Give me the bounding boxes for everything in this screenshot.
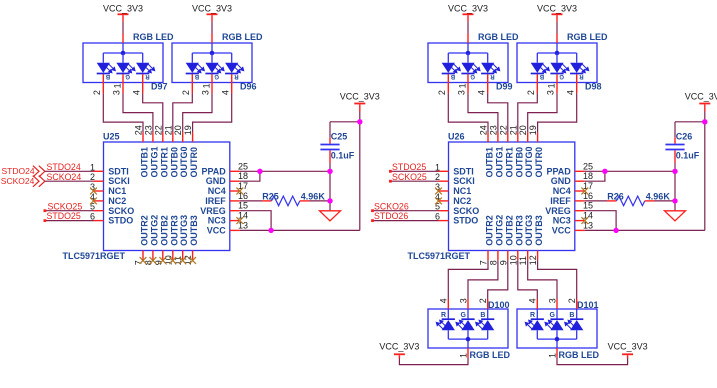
svg-text:OUTG3: OUTG3	[524, 215, 534, 246]
svg-text:D99: D99	[496, 81, 513, 91]
D101 LED R diode	[525, 319, 544, 339]
svg-text:25: 25	[238, 161, 248, 171]
svg-text:12: 12	[528, 255, 538, 265]
svg-text:GND: GND	[206, 176, 227, 186]
resistor R26 right lead	[645, 200, 655, 202]
D99 pin 4 stub	[487, 74, 489, 93]
svg-text:23: 23	[488, 125, 498, 135]
D96 LED B diode	[186, 53, 205, 74]
svg-text:2: 2	[478, 298, 488, 303]
D99 pin 3 stub	[467, 74, 469, 93]
wire U26 pin 7 to D100	[448, 260, 488, 299]
svg-text:3: 3	[112, 90, 122, 95]
svg-text:SDTI: SDTI	[108, 166, 129, 176]
wire VCC rail top U26	[704, 104, 706, 230]
IC U26 pin 23 stub	[497, 132, 499, 142]
svg-text:VCC_3V3: VCC_3V3	[192, 4, 232, 14]
svg-text:16: 16	[238, 191, 248, 201]
svg-text:OUTB0: OUTB0	[169, 147, 179, 178]
svg-text:B: B	[539, 73, 544, 79]
svg-text:22: 22	[153, 125, 163, 135]
svg-text:VCC_3V3: VCC_3V3	[537, 4, 577, 14]
IC U26 pin 20 stub	[527, 132, 529, 142]
no-connect X U26 pin 14 NC3	[581, 217, 588, 224]
svg-text:G: G	[125, 73, 130, 79]
IC U25 pin 7 stub	[142, 251, 144, 261]
IC U26 pin 1 stub	[439, 170, 449, 172]
IC U26 pin 4 stub	[439, 200, 449, 202]
D100 LED B diode	[476, 319, 495, 339]
svg-text:U26: U26	[448, 132, 465, 142]
junction C25 bottom to PPAD net	[327, 169, 332, 174]
svg-text:R: R	[441, 312, 446, 319]
capacitor C26 plates	[665, 145, 684, 150]
capacitor C26 vertical net	[674, 122, 676, 211]
svg-text:D101: D101	[577, 300, 599, 310]
wire VCC into D97 pin 1	[122, 15, 124, 43]
wire D99 pin 4 to U26 pin 22	[488, 93, 508, 132]
svg-text:2: 2	[567, 298, 577, 303]
wire D98 pin 2 to U26 pin 21	[518, 93, 538, 132]
power symbol VCC_3V3 at x=360	[340, 92, 380, 104]
wire D97 pin 3 to U25 pin 23	[123, 93, 153, 132]
resistor R25 left lead	[262, 200, 272, 202]
svg-text:3: 3	[201, 90, 211, 95]
svg-text:SDTI: SDTI	[453, 166, 474, 176]
D96 pin 2 stub	[191, 74, 193, 93]
svg-text:R: R	[145, 73, 150, 79]
IC U25 pin 1 stub	[94, 170, 104, 172]
IC U25 pin 13 stub	[230, 229, 240, 231]
svg-text:B: B	[450, 73, 455, 79]
wire STDO24 to U25 pin 1	[45, 170, 94, 172]
svg-text:4: 4	[439, 298, 449, 303]
svg-text:OUTR1: OUTR1	[159, 147, 169, 178]
IC U25 pin 6 stub	[94, 220, 104, 222]
svg-text:R26: R26	[607, 192, 624, 202]
svg-text:13: 13	[238, 220, 248, 230]
svg-text:SCKO: SCKO	[453, 206, 479, 216]
IC U26 pin 19 stub	[537, 132, 539, 142]
no-connect X U25 pin 4 NC2	[90, 198, 97, 205]
svg-text:1: 1	[202, 83, 212, 88]
IC U26 TLC5971RGET body	[449, 142, 575, 251]
IC U26 pin 17 stub	[575, 190, 585, 192]
RGB LED D97 package outline	[83, 43, 163, 83]
svg-text:OUTG0: OUTG0	[524, 146, 534, 177]
svg-text:16: 16	[583, 191, 593, 201]
svg-text:D97: D97	[151, 81, 168, 91]
svg-text:RGB LED: RGB LED	[559, 350, 600, 360]
power symbol VCC_3V3 at x=123	[103, 4, 143, 15]
power symbol VCC_3V3 at x=468	[448, 4, 488, 15]
svg-text:20: 20	[173, 125, 183, 135]
svg-text:4: 4	[131, 90, 141, 95]
wire D96 pin 4 to U25 pin 19	[193, 93, 232, 132]
D96 pin 3 stub	[211, 74, 213, 93]
svg-text:18: 18	[583, 171, 593, 181]
off-page connector SCKO24	[1, 176, 45, 187]
wire D97 pin 2 to U25 pin 24	[103, 93, 143, 132]
svg-text:4: 4	[565, 90, 575, 95]
svg-text:R: R	[579, 73, 584, 79]
svg-text:D100: D100	[488, 300, 510, 310]
svg-text:15: 15	[238, 201, 248, 211]
svg-text:VCC: VCC	[552, 226, 572, 236]
D97 pin 2 stub	[102, 74, 104, 93]
junction C26 bottom to PPAD net	[672, 169, 677, 174]
IC U25 pin 16 stub	[230, 200, 240, 202]
wire D99 pin 3 to U26 pin 23	[468, 93, 498, 132]
svg-text:SCKO26: SCKO26	[374, 201, 409, 211]
svg-text:OUTB3: OUTB3	[534, 215, 544, 246]
svg-text:VCC_3V3: VCC_3V3	[685, 92, 717, 102]
svg-text:13: 13	[583, 220, 593, 230]
no-connect X U25 pin 17 NC4	[236, 188, 243, 195]
svg-text:STDO: STDO	[453, 216, 478, 226]
D97 anode rail and junction	[103, 43, 142, 55]
svg-text:OUTB2: OUTB2	[159, 215, 169, 246]
svg-text:C25: C25	[331, 131, 348, 141]
svg-text:OUTR2: OUTR2	[140, 215, 150, 246]
no-connect X U25 pin 7	[140, 257, 147, 264]
D97 LED R diode	[136, 53, 155, 74]
svg-text:NC1: NC1	[108, 186, 126, 196]
svg-text:19: 19	[528, 125, 538, 135]
svg-text:19: 19	[183, 125, 193, 135]
wire VCC into D98 pin 1	[556, 15, 558, 43]
RGB LED D101 package outline	[517, 309, 597, 348]
svg-text:18: 18	[238, 171, 248, 181]
D100 pin 2 stub	[487, 299, 489, 319]
svg-text:RGB LED: RGB LED	[567, 32, 608, 42]
svg-text:C26: C26	[676, 131, 693, 141]
junction VREG branch U26	[613, 228, 618, 233]
wire D96 pin 3 to U25 pin 20	[183, 93, 212, 132]
svg-text:4.96K: 4.96K	[301, 192, 326, 202]
D101 pin 2 stub	[576, 299, 578, 319]
svg-text:2: 2	[437, 90, 447, 95]
svg-text:0.1uF: 0.1uF	[676, 151, 700, 161]
IC U26 pin 15 stub	[575, 210, 585, 212]
D96 anode rail and junction	[192, 43, 231, 55]
wire VCC branch to C25	[330, 121, 360, 123]
svg-text:22: 22	[498, 125, 508, 135]
svg-text:14: 14	[583, 211, 593, 221]
svg-text:OUTR1: OUTR1	[504, 147, 514, 178]
ground symbol U26	[665, 211, 686, 221]
wire VCC branch to C26	[675, 121, 705, 123]
no-connect X U26 pin 17 NC4	[581, 188, 588, 195]
svg-text:R: R	[490, 73, 495, 79]
svg-text:VCC_3V3: VCC_3V3	[379, 341, 419, 351]
IC U26 pin 25 stub	[575, 170, 585, 172]
svg-text:OUTG2: OUTG2	[149, 215, 159, 246]
svg-text:OUTR2: OUTR2	[485, 215, 495, 246]
svg-text:24: 24	[479, 125, 489, 135]
junction GND branch U25	[257, 169, 262, 174]
svg-text:14: 14	[238, 211, 248, 221]
D100 pin 3 stub	[467, 299, 469, 319]
D99 LED R diode	[481, 53, 500, 74]
svg-text:9: 9	[498, 260, 508, 265]
IC U25 pin 11 stub	[182, 251, 184, 261]
svg-text:1: 1	[113, 83, 123, 88]
D96 pin 4 stub	[231, 74, 233, 93]
D97 pin 4 stub	[142, 74, 144, 93]
svg-text:10: 10	[508, 255, 518, 265]
IC U26 pin 13 stub	[575, 229, 585, 231]
svg-text:20: 20	[518, 125, 528, 135]
junction VCC branch C25	[357, 119, 362, 124]
svg-text:15: 15	[583, 201, 593, 211]
IC U26 pin 5 stub	[439, 210, 449, 212]
junction VREG branch U25	[268, 228, 273, 233]
svg-text:2: 2	[181, 90, 191, 95]
IC U25 pin 5 stub	[94, 210, 104, 212]
wire U26 pin 11 to D101	[528, 260, 557, 299]
wire U25 pin 15 VREG branch	[240, 211, 271, 231]
IC U25 pin 24 stub	[142, 132, 144, 142]
wire D98 pin 4 to U26 pin 19	[538, 93, 577, 132]
IC U25 pin 18 stub	[230, 180, 240, 182]
power symbol VCC_3V3 at x=212	[192, 4, 232, 15]
D100 pin 1 stub	[467, 348, 469, 358]
IC U25 pin 8 stub	[152, 251, 154, 261]
svg-text:D96: D96	[240, 81, 257, 91]
no-connect X U26 pin 3 NC1	[435, 188, 442, 195]
svg-text:17: 17	[238, 181, 248, 191]
IC U26 pin 2 stub	[439, 180, 449, 182]
D98 pin 3 stub	[556, 74, 558, 93]
svg-text:G: G	[549, 312, 555, 319]
D99 LED G diode	[461, 53, 480, 74]
IC U25 pin 10 stub	[172, 251, 174, 261]
power symbol VCC_3V3 bottom left	[379, 341, 419, 354]
svg-text:NC2: NC2	[108, 196, 126, 206]
resistor R26 body	[617, 196, 645, 206]
svg-text:3: 3	[546, 90, 556, 95]
wire SCKO26 to U26 pin 5	[371, 209, 438, 212]
svg-text:3: 3	[458, 298, 468, 303]
svg-text:U25: U25	[103, 132, 120, 142]
IC U26 pin 7 stub	[487, 251, 489, 261]
svg-text:OUTB2: OUTB2	[504, 215, 514, 246]
svg-text:R: R	[530, 312, 535, 319]
wire R25 to ground node	[310, 200, 331, 202]
IC U25 pin 4 stub	[94, 200, 104, 202]
svg-text:TLC5971RGET: TLC5971RGET	[408, 251, 471, 261]
svg-text:SCKO25: SCKO25	[48, 201, 83, 211]
svg-text:STDO25: STDO25	[392, 162, 426, 172]
D98 LED G diode	[550, 53, 569, 74]
svg-text:VCC_3V3: VCC_3V3	[340, 92, 380, 102]
svg-text:1: 1	[548, 353, 558, 358]
IC U26 pin 21 stub	[517, 132, 519, 142]
IC U26 pin 3 stub	[439, 190, 449, 192]
power symbol VCC_3V3 bottom right	[608, 341, 648, 354]
svg-text:STDO: STDO	[108, 216, 133, 226]
svg-text:SCKO25: SCKO25	[392, 172, 427, 182]
wire U26 pin 15 VREG branch	[585, 211, 616, 231]
svg-text:B: B	[480, 312, 485, 319]
wire U25 pin 18 GND branch	[240, 171, 260, 181]
svg-text:11: 11	[518, 256, 528, 265]
svg-text:PPAD: PPAD	[546, 166, 571, 176]
IC U26 pin 24 stub	[487, 132, 489, 142]
no-connect X U25 pin 11	[179, 257, 186, 264]
wire VCC into D99 pin 1	[467, 15, 469, 43]
D101 pin 4 stub	[536, 299, 538, 319]
svg-text:8: 8	[488, 260, 498, 265]
wire D99 pin 2 to U26 pin 24	[448, 93, 488, 132]
svg-text:NC3: NC3	[553, 216, 571, 226]
no-connect X U25 pin 12	[189, 257, 196, 264]
svg-text:RGB LED: RGB LED	[133, 32, 174, 42]
junction R26 to ground net	[672, 198, 677, 203]
IC U26 pin 9 stub	[507, 251, 509, 261]
svg-text:OUTG1: OUTG1	[149, 146, 159, 177]
svg-text:STDO25: STDO25	[47, 211, 81, 221]
no-connect X U25 pin 10	[169, 257, 176, 264]
svg-text:OUTB1: OUTB1	[140, 147, 150, 178]
svg-text:RGB LED: RGB LED	[478, 32, 519, 42]
D100 pin 4 stub	[447, 299, 449, 319]
D100 LED R diode	[436, 319, 455, 339]
svg-text:0.1uF: 0.1uF	[331, 151, 355, 161]
D97 LED B diode	[97, 53, 116, 74]
D97 LED G diode	[116, 53, 135, 74]
svg-text:4: 4	[528, 298, 538, 303]
IC U25 pin 20 stub	[182, 132, 184, 142]
svg-text:1: 1	[459, 353, 469, 358]
svg-text:NC3: NC3	[208, 216, 226, 226]
D100 cathode rail and junction	[448, 337, 487, 348]
svg-text:TLC5971RGET: TLC5971RGET	[63, 251, 126, 261]
wire U26 pin 25 PPAD net	[585, 170, 675, 172]
wire SCKO24 to U25 pin 2	[45, 180, 94, 182]
wire U26 pin 16 IREF to R26	[585, 200, 607, 202]
IC U26 pin 18 stub	[575, 180, 585, 182]
power symbol VCC_3V3 at x=705	[685, 92, 717, 104]
off-page connector STDO24	[2, 166, 45, 177]
IC U25 pin 9 stub	[162, 251, 164, 261]
svg-text:4: 4	[476, 90, 486, 95]
svg-text:NC4: NC4	[208, 186, 226, 196]
capacitor C25 vertical net	[329, 122, 331, 211]
IC U25 pin 22 stub	[162, 132, 164, 142]
svg-text:7: 7	[479, 260, 489, 265]
IC U26 pin 10 stub	[517, 251, 519, 261]
RGB LED D96 package outline	[172, 43, 252, 83]
svg-text:G: G	[559, 73, 564, 79]
wire STDO25 to U26 pin 1	[389, 170, 439, 173]
svg-text:1: 1	[458, 83, 468, 88]
IC U26 pin 11 stub	[527, 251, 529, 261]
wire U26 pin 10 to D101	[518, 260, 538, 299]
IC U26 pin 16 stub	[575, 200, 585, 202]
D99 LED B diode	[442, 53, 461, 74]
junction VCC branch C26	[702, 119, 707, 124]
D100 LED G diode	[456, 319, 475, 339]
IC U25 pin 23 stub	[152, 132, 154, 142]
wire U26 pin 12 to D101	[538, 260, 577, 299]
svg-text:PPAD: PPAD	[201, 166, 226, 176]
svg-text:B: B	[105, 73, 110, 79]
svg-text:IREF: IREF	[550, 196, 571, 206]
svg-text:D98: D98	[585, 81, 602, 91]
svg-text:GND: GND	[551, 176, 572, 186]
wire U25 pin 25 PPAD net	[240, 170, 330, 172]
IC U26 pin 6 stub	[439, 220, 449, 222]
svg-text:SCKO24: SCKO24	[1, 176, 35, 186]
svg-text:23: 23	[143, 125, 153, 135]
IC U25 pin 14 stub	[230, 220, 240, 222]
svg-text:IREF: IREF	[205, 196, 226, 206]
svg-text:OUTB0: OUTB0	[514, 147, 524, 178]
svg-text:NC1: NC1	[453, 186, 471, 196]
svg-text:R25: R25	[262, 192, 279, 202]
wire U25 pin 16 IREF to R25	[240, 200, 262, 202]
IC U26 pin 8 stub	[497, 251, 499, 261]
wire U26 pin 9 to D100	[488, 260, 508, 299]
svg-text:4.96K: 4.96K	[646, 192, 671, 202]
svg-text:2: 2	[92, 90, 102, 95]
svg-text:VCC: VCC	[207, 226, 227, 236]
IC U25 pin 17 stub	[230, 190, 240, 192]
wire U26 pin 8 to D100	[468, 260, 498, 299]
svg-text:4: 4	[220, 90, 230, 95]
svg-text:NC4: NC4	[553, 186, 571, 196]
IC U25 pin 21 stub	[172, 132, 174, 142]
D101 LED G diode	[545, 319, 564, 339]
svg-text:RGB LED: RGB LED	[470, 350, 511, 360]
D101 cathode rail and junction	[537, 337, 576, 348]
svg-text:VCC_3V3: VCC_3V3	[103, 4, 143, 14]
svg-text:OUTG1: OUTG1	[494, 146, 504, 177]
wire U25 pin 13 VCC	[240, 229, 360, 231]
IC U26 pin 22 stub	[507, 132, 509, 142]
D98 pin 2 stub	[536, 74, 538, 93]
resistor R25 body	[272, 196, 300, 206]
IC U25 pin 15 stub	[230, 210, 240, 212]
wire D98 pin 3 to U26 pin 20	[528, 93, 557, 132]
wire VCC into D96 pin 1	[211, 15, 213, 43]
IC U25 TLC5971RGET body	[104, 142, 230, 251]
D99 pin 2 stub	[447, 74, 449, 93]
svg-text:24: 24	[134, 125, 144, 135]
wire R26 to ground node	[655, 200, 676, 202]
svg-text:OUTR3: OUTR3	[514, 215, 524, 246]
D98 LED B diode	[531, 53, 550, 74]
no-connect X U25 pin 3 NC1	[90, 188, 97, 195]
no-connect X U25 pin 8	[150, 257, 157, 264]
svg-text:2: 2	[526, 90, 536, 95]
svg-text:OUTG2: OUTG2	[494, 215, 504, 246]
no-connect X U25 pin 14 NC3	[236, 217, 243, 224]
D99 anode rail and junction	[448, 43, 487, 55]
svg-text:OUTB3: OUTB3	[189, 215, 199, 246]
IC U25 pin 25 stub	[230, 170, 240, 172]
D96 LED G diode	[205, 53, 224, 74]
svg-text:OUTG0: OUTG0	[179, 146, 189, 177]
svg-text:VCC_3V3: VCC_3V3	[448, 4, 488, 14]
svg-text:STDO24: STDO24	[2, 166, 35, 176]
svg-text:B: B	[194, 73, 199, 79]
svg-text:VCC_3V3: VCC_3V3	[608, 341, 648, 351]
junction R25 to ground net	[327, 198, 332, 203]
svg-text:VREG: VREG	[545, 206, 571, 216]
